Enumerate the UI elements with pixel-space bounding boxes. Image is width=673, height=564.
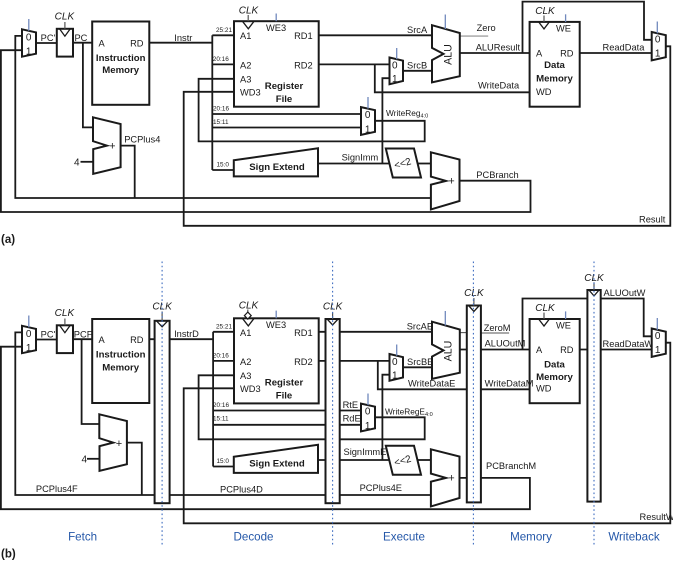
wire PC' mux output to PC register: [36, 42, 57, 44]
register PC (b): [57, 325, 73, 353]
svg-text:CLK: CLK: [239, 6, 260, 17]
wire PCPlus4 adder (b) output drop: [127, 443, 142, 495]
svg-text:15:0: 15:0: [217, 162, 230, 169]
mux PCSrc (a): [22, 29, 36, 56]
adder PCBranch (a): [431, 152, 460, 209]
register file (b): [234, 318, 319, 403]
svg-text:SrcA: SrcA: [407, 25, 428, 35]
adder PCBranch (b): [431, 449, 460, 506]
wire PCBranchM feedback to PC mux in1: [1, 347, 530, 510]
pipeline register IF/ID: [155, 321, 170, 503]
svg-text:Instruction: Instruction: [96, 350, 146, 361]
svg-text:A1: A1: [240, 328, 251, 338]
svg-text:1: 1: [365, 125, 371, 136]
wire ALUOut to DM.A through EX/MEM (b): [460, 349, 530, 351]
wire Zero stub (thin): [460, 35, 488, 37]
wire PCF branch down to adder (b): [82, 339, 100, 424]
wire constant 4 stub (b): [87, 458, 100, 460]
shifter <<2 (b): [386, 446, 421, 475]
svg-text:WE3: WE3: [266, 23, 286, 33]
svg-text:CLK: CLK: [584, 273, 605, 284]
wire PC to Instruction Memory A: [73, 42, 92, 44]
svg-text:ReadDataW: ReadDataW: [603, 339, 654, 349]
svg-text:RD1: RD1: [294, 328, 313, 338]
mux WriteReg (a): [361, 107, 375, 135]
svg-text:PCPlus4D: PCPlus4D: [220, 484, 263, 494]
svg-text:SrcBE: SrcBE: [407, 357, 433, 367]
svg-text:ALUResult: ALUResult: [476, 42, 521, 52]
svg-text:PCBranchM: PCBranchM: [486, 461, 536, 471]
svg-text:RD: RD: [560, 345, 574, 355]
adder PCPlus4 (b): [99, 414, 127, 471]
wire ALUResult to Data Memory A: [460, 52, 530, 54]
mux Result (a): [652, 32, 666, 60]
svg-text:File: File: [276, 94, 293, 105]
svg-text:A3: A3: [240, 75, 251, 85]
wire SignImmE riser to SrcBE mux in1 (b): [382, 375, 389, 460]
svg-text:PCPlus4E: PCPlus4E: [360, 483, 402, 493]
wire Result feedback to WD3: [184, 46, 671, 226]
svg-text:ALU: ALU: [442, 44, 454, 65]
svg-text:CLK: CLK: [323, 301, 344, 312]
svg-text:RtE: RtE: [343, 400, 359, 410]
svg-text:1: 1: [655, 345, 661, 356]
svg-text:1: 1: [655, 49, 661, 60]
svg-text:Sign Extend: Sign Extend: [249, 458, 305, 469]
pipeline register ID/EX: [326, 319, 340, 503]
svg-text:ALU: ALU: [442, 341, 454, 362]
wire Zero stub ALU to EX/MEM (b): [460, 332, 467, 334]
svg-text:WE: WE: [556, 24, 571, 34]
svg-text:A: A: [536, 345, 543, 355]
svg-text:A1: A1: [240, 31, 251, 41]
data memory (b): [530, 319, 580, 403]
svg-text:WriteDataM: WriteDataM: [485, 379, 534, 389]
svg-text:CLK: CLK: [535, 6, 556, 17]
svg-text:ALUOutM: ALUOutM: [485, 339, 526, 349]
mux ResultW (b): [652, 329, 666, 357]
pipeline register EX/MEM: [467, 306, 481, 503]
wire Instr vertical bus: [211, 35, 213, 170]
svg-text:25:21: 25:21: [216, 27, 232, 34]
wire shifter output to branch adder (b): [417, 459, 431, 461]
wire SrcB mux output to ALU: [403, 70, 432, 72]
mux PCSrc (b): [22, 326, 36, 353]
svg-text:PC: PC: [74, 33, 87, 43]
svg-text:15:11: 15:11: [213, 119, 229, 126]
svg-text:Zero: Zero: [477, 23, 496, 33]
svg-text:+: +: [448, 176, 454, 188]
svg-text:0: 0: [365, 407, 371, 418]
wire ReadDataW to result mux in1 (b): [580, 349, 652, 351]
svg-text:CLK: CLK: [239, 301, 260, 312]
wire ALUOutM/W bypass over DM to result mux in0 (b): [523, 299, 652, 350]
wire ResultW feedback to WD3 (b): [184, 343, 671, 524]
sign extend (b): [234, 445, 318, 473]
svg-text:SignImm: SignImm: [342, 153, 379, 163]
svg-text:1: 1: [365, 421, 371, 432]
register file (a): [234, 21, 319, 107]
svg-text:RD: RD: [130, 335, 144, 345]
wire shifter output to branch adder: [417, 163, 431, 165]
svg-text:25:21: 25:21: [216, 323, 232, 330]
wire Instr 15:11 to WriteReg mux in1: [212, 127, 361, 129]
wire PC' mux output to PC register (b): [36, 339, 57, 341]
svg-text:WD3: WD3: [240, 88, 261, 98]
wire PCBranch feedback to PC mux in1: [1, 50, 531, 212]
svg-text:RD: RD: [130, 38, 144, 48]
svg-text:Decode: Decode: [234, 531, 274, 544]
alu (a): [432, 25, 460, 82]
stage boundary dotted line Fetch/Decode: [161, 262, 163, 546]
wire RD1 SrcA to ALU: [319, 34, 432, 36]
svg-text:WriteReg4:0: WriteReg4:0: [386, 108, 428, 120]
pipeline register MEM/WB: [587, 290, 600, 502]
svg-text:A: A: [99, 38, 106, 48]
mux SrcBE (b): [390, 354, 404, 381]
wire 20:16 RtE row to WriteRegE mux in0: [213, 410, 361, 412]
svg-text:1: 1: [26, 343, 32, 354]
svg-text:15:11: 15:11: [213, 416, 229, 423]
svg-text:WE: WE: [556, 321, 571, 331]
svg-text:Execute: Execute: [383, 531, 425, 544]
wire constant 4 stub into adder: [81, 161, 94, 163]
svg-text:A2: A2: [240, 357, 251, 367]
svg-text:0: 0: [392, 60, 398, 71]
svg-text:(a): (a): [1, 234, 15, 246]
svg-text:20:16: 20:16: [213, 402, 229, 409]
svg-text:SrcAE: SrcAE: [407, 322, 433, 332]
svg-text:RD2: RD2: [294, 357, 313, 367]
svg-text:WriteRegE4:0: WriteRegE4:0: [385, 406, 433, 418]
wire Instr 25:21 to A1: [212, 34, 234, 36]
svg-text:Sign Extend: Sign Extend: [249, 162, 305, 173]
wire PC branch down to PCPlus4 adder top input: [83, 43, 93, 128]
svg-text:WE3: WE3: [266, 320, 286, 330]
wire RD2 branch down to WriteData: [375, 64, 530, 92]
data memory (a): [530, 22, 580, 107]
svg-text:ResultW: ResultW: [640, 512, 673, 522]
wire Instr 15:0 to Sign Extend: [212, 169, 234, 171]
svg-text:CLK: CLK: [464, 288, 485, 299]
svg-text:PCPlus4F: PCPlus4F: [36, 484, 78, 494]
wire PCPlus4F/D/E line to PC mux in0 and branch adder: [15, 332, 432, 495]
svg-text:+: +: [448, 473, 454, 485]
instruction memory (a): [92, 22, 149, 105]
register PC: [57, 29, 73, 57]
svg-text:4: 4: [74, 157, 80, 168]
wire PCPlus4 adder output drop: [121, 146, 135, 198]
wire SignImm row from Sign Extend to shifter (b): [318, 459, 390, 461]
wire ALUResult bypass over Data Memory to result mux in0: [523, 2, 652, 53]
svg-text:1: 1: [392, 370, 398, 381]
wire 15:0 to Sign Extend (b): [213, 466, 234, 468]
wire PCF to Instruction Memory (b): [73, 338, 92, 340]
svg-text:1: 1: [392, 74, 398, 85]
svg-text:Memory: Memory: [536, 372, 573, 383]
svg-text:WriteData: WriteData: [478, 81, 520, 91]
svg-text:0: 0: [392, 357, 398, 368]
svg-text:A: A: [99, 335, 106, 345]
wire ReadData to result mux in1: [580, 52, 652, 54]
svg-text:15:0: 15:0: [217, 458, 230, 465]
wire Instr 20:16 to WriteReg mux in0: [212, 113, 361, 115]
svg-text:PCPlus4: PCPlus4: [124, 135, 160, 145]
svg-text:SignImmE: SignImmE: [344, 447, 387, 457]
svg-text:Register: Register: [265, 378, 304, 389]
wire PCPlus4 feedback to PC mux in0 and to branch adder: [15, 36, 432, 198]
wire ZeroM stub (thin): [481, 332, 509, 334]
svg-text:Memory: Memory: [102, 363, 139, 374]
svg-text:ReadData: ReadData: [603, 43, 646, 53]
svg-text:Instruction: Instruction: [96, 53, 146, 64]
svg-text:CLK: CLK: [55, 308, 76, 319]
wire Instr from IM.RD: [149, 42, 212, 44]
shifter <<2 (a): [386, 149, 421, 178]
svg-text:Memory: Memory: [536, 74, 573, 85]
svg-text:WD: WD: [536, 384, 552, 394]
sign extend (a): [234, 148, 318, 176]
svg-text:0: 0: [365, 110, 371, 121]
svg-text:CLK: CLK: [535, 303, 556, 314]
svg-text:A: A: [536, 49, 543, 59]
wire Instr 20:16 to A2: [212, 63, 234, 65]
svg-text:WD3: WD3: [240, 384, 261, 394]
wire RD2 to SrcB mux in0: [319, 63, 390, 65]
stage boundary dotted line Memory/Writeback: [593, 262, 595, 546]
stage boundary dotted line Execute/Memory: [472, 262, 474, 546]
wire WriteDataE/M to DM.WD (b): [378, 361, 530, 389]
wire 25:21 to A1 (b): [213, 331, 234, 333]
svg-text:RD1: RD1: [294, 31, 313, 41]
svg-text:4: 4: [81, 455, 87, 466]
control tick PCSrc mux: [28, 19, 30, 31]
mux WriteRegE (b): [361, 404, 375, 432]
svg-text:InstrD: InstrD: [174, 329, 199, 339]
svg-text:20:16: 20:16: [213, 106, 229, 113]
svg-text:CLK: CLK: [55, 12, 76, 23]
adder PCPlus4 (a): [93, 117, 121, 174]
svg-text:Memory: Memory: [510, 531, 552, 544]
svg-text:Fetch: Fetch: [68, 531, 97, 544]
wire 15:11 RdE row to WriteRegE mux in1: [213, 424, 361, 426]
svg-text:Instr: Instr: [174, 33, 192, 43]
wire WriteReg mux output loop back to A3: [199, 79, 425, 142]
svg-text:Writeback: Writeback: [608, 531, 660, 544]
svg-text:File: File: [276, 391, 293, 402]
svg-text:RD2: RD2: [294, 60, 313, 70]
svg-text:Result: Result: [639, 214, 666, 224]
stage boundary dotted line Decode/Execute: [332, 262, 334, 546]
svg-text:Data: Data: [544, 360, 565, 371]
svg-text:ZeroM: ZeroM: [484, 323, 511, 333]
svg-text:A2: A2: [240, 60, 251, 70]
svg-text:20:16: 20:16: [213, 352, 229, 359]
svg-text:PC': PC': [41, 33, 56, 43]
svg-text:+: +: [109, 141, 115, 153]
wire RD2 to SrcBE mux in0 (b): [319, 360, 390, 362]
svg-text:SrcB: SrcB: [407, 61, 427, 71]
svg-text:0: 0: [26, 32, 32, 43]
wire WriteRegE mux output loop back to A3 (b): [199, 375, 425, 439]
svg-text:RdE: RdE: [343, 414, 361, 424]
svg-text:Memory: Memory: [102, 65, 139, 76]
svg-text:Register: Register: [265, 81, 304, 92]
svg-text:ALUOutW: ALUOutW: [604, 288, 646, 298]
svg-text:WriteDataE: WriteDataE: [408, 379, 455, 389]
wire SignImm riser to SrcB mux in1: [382, 78, 389, 163]
alu (b): [432, 322, 460, 379]
svg-text:20:16: 20:16: [213, 56, 229, 63]
svg-text:A3: A3: [240, 371, 251, 381]
wire InstrD from IM through IF/ID: [149, 338, 213, 340]
svg-text:0: 0: [26, 329, 32, 340]
svg-text:1: 1: [26, 46, 32, 57]
svg-text:+: +: [116, 438, 122, 450]
svg-text:PCBranch: PCBranch: [476, 170, 518, 180]
svg-text:(b): (b): [1, 549, 16, 561]
wire SignImm from Sign Extend to shifter: [318, 163, 390, 165]
wire RD1 SrcAE to ALU (b): [319, 331, 432, 333]
wire InstrD vertical bus: [212, 332, 214, 467]
svg-text:CLK: CLK: [152, 301, 173, 312]
svg-text:WD: WD: [536, 87, 552, 97]
svg-text:PCF: PCF: [74, 330, 93, 340]
svg-text:RD: RD: [560, 49, 574, 59]
wire SrcBE mux output to ALU (b): [403, 366, 432, 368]
wire 20:16 to A2 (b): [213, 360, 234, 362]
mux SrcB (a): [390, 58, 404, 85]
svg-text:0: 0: [655, 331, 661, 342]
svg-text:0: 0: [655, 34, 661, 45]
svg-text:PC': PC': [41, 330, 56, 340]
instruction memory (b): [92, 319, 149, 403]
svg-text:Data: Data: [544, 60, 565, 71]
